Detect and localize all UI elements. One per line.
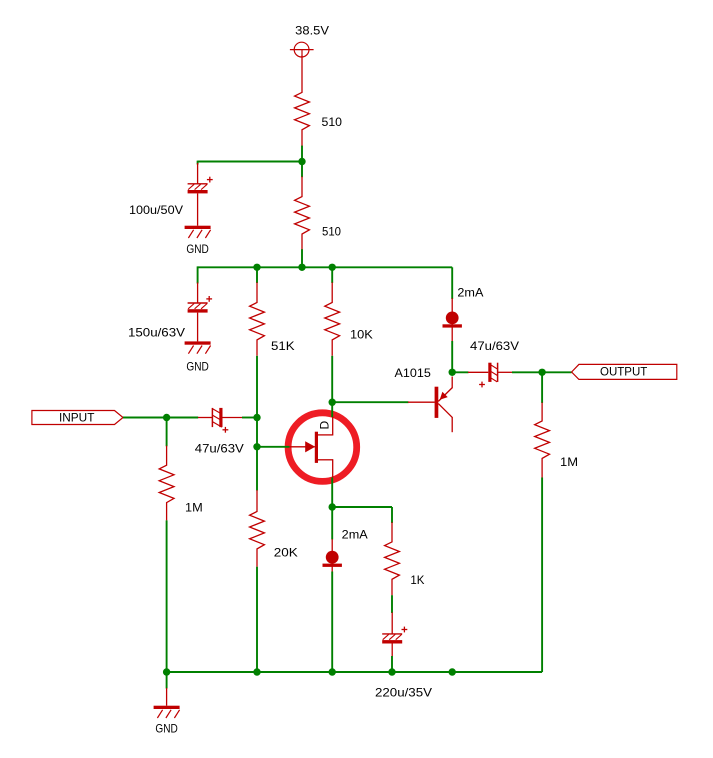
- junction node V2 junction at 510: [298, 264, 305, 271]
- wire wire source node horizontal: [332, 506, 392, 508]
- wire wire rail to 51K: [256, 267, 258, 283]
- resistor 10K: [325, 282, 340, 355]
- wire cap 150u lead-in: [197, 266, 199, 283]
- transistor Q2 A1015 PNP: [408, 377, 452, 433]
- svg-text:GND: GND: [186, 360, 209, 374]
- svg-text:100u/50V: 100u/50V: [129, 203, 183, 217]
- junction junction rail at input column: [163, 668, 170, 675]
- capacitor 220u/35V: [382, 612, 407, 656]
- svg-text:1M: 1M: [560, 455, 578, 469]
- wire wire 1M output to rail: [541, 478, 543, 673]
- junction junction source node: [329, 503, 336, 510]
- svg-text:2mA: 2mA: [342, 528, 368, 542]
- wire node V1 horizontal: [198, 161, 302, 163]
- svg-text:GND: GND: [155, 722, 178, 736]
- wire wire corner down to 1K: [391, 507, 393, 523]
- wire wire rail to ground: [166, 672, 168, 689]
- svg-text:150u/63V: 150u/63V: [128, 326, 185, 340]
- junction junction rail at collector: [449, 668, 456, 675]
- svg-text:510: 510: [322, 115, 343, 129]
- wire wire input node to 1M: [166, 418, 168, 447]
- svg-text:10K: 10K: [350, 328, 373, 342]
- wire wire drain node to JFET: [331, 402, 333, 417]
- wire wire source node to CRD: [331, 507, 333, 540]
- capacitor 47u/63V input: [198, 408, 242, 433]
- wire wire output node to 1M: [541, 372, 543, 403]
- wire wire drain node to base: [332, 401, 408, 403]
- wire wire input node to 20K: [256, 418, 258, 490]
- junction junction rail at 220u: [388, 668, 395, 675]
- JFET Q1 2SK-type: [289, 417, 333, 478]
- wire wire 20K to rail: [256, 567, 258, 672]
- net flag INPUT: [32, 411, 123, 425]
- svg-text:D: D: [318, 421, 332, 430]
- svg-text:INPUT: INPUT: [59, 411, 95, 425]
- resistor 510 (lower): [295, 177, 310, 251]
- svg-text:220u/35V: 220u/35V: [375, 686, 432, 700]
- ground GND (100u cap): [185, 226, 211, 256]
- resistor 51K: [250, 282, 265, 355]
- current regulating diode 2mA (lower): [323, 551, 342, 567]
- junction junction output node: [538, 369, 545, 376]
- junction junction rail at CRD: [329, 668, 336, 675]
- svg-text:1M: 1M: [185, 500, 203, 514]
- resistor 510 (upper): [295, 56, 310, 147]
- capacitor 47u/63V output: [468, 363, 512, 388]
- wire node V2 rail horizontal: [198, 266, 453, 268]
- wire wire gate horizontal: [257, 446, 290, 448]
- svg-text:GND: GND: [186, 242, 209, 256]
- junction junction gate node: [253, 443, 260, 450]
- power symbol 38.5V supply: [290, 42, 314, 57]
- wire wire 10K to drain node: [331, 356, 333, 402]
- svg-text:A1015: A1015: [395, 366, 432, 380]
- junction junction emitter node: [449, 369, 456, 376]
- svg-text:1K: 1K: [410, 573, 424, 587]
- wire wire CRD to rail: [331, 572, 333, 673]
- svg-text:510: 510: [322, 225, 341, 239]
- wire wire JFET source down: [331, 478, 333, 508]
- wire wire 51K to input node: [256, 356, 258, 418]
- wire wire cap to output node: [512, 371, 572, 373]
- current regulating diode 2mA (upper): [443, 312, 462, 328]
- wire ground rail horizontal: [167, 671, 542, 673]
- wire wire CRD to emitter node: [451, 341, 453, 372]
- wire wire rail to 10K: [331, 267, 333, 283]
- resistor 1M (input): [159, 446, 174, 521]
- wire wire 1M input to rail: [166, 520, 168, 672]
- wire wire 510 lower to rail: [301, 249, 303, 267]
- svg-text:47u/63V: 47u/63V: [195, 441, 244, 455]
- resistor 1K: [385, 522, 400, 595]
- resistor 1M (output): [535, 403, 550, 478]
- capacitor 150u/63V: [188, 283, 213, 342]
- wire node V1 vertical stub: [301, 146, 303, 178]
- svg-text:51K: 51K: [271, 339, 295, 353]
- svg-text:OUTPUT: OUTPUT: [600, 365, 648, 379]
- svg-text:47u/63V: 47u/63V: [470, 339, 519, 353]
- lead CRD top: [451, 298, 453, 341]
- svg-text:2mA: 2mA: [457, 286, 483, 300]
- ground GND (150u cap): [185, 341, 211, 373]
- junction node V2 junction at 51K: [253, 264, 260, 271]
- lead ground stub: [166, 688, 168, 706]
- svg-text:38.5V: 38.5V: [295, 23, 329, 37]
- junction junction rail at 20K: [253, 668, 260, 675]
- lead CRD bottom: [331, 539, 333, 571]
- junction node V1: [298, 158, 305, 165]
- wire cap 100u lead-in corner: [197, 161, 199, 165]
- wire wire cap 220u to rail: [391, 656, 393, 672]
- resistor 20K: [250, 490, 265, 567]
- wire wire input flag to cap: [123, 417, 198, 419]
- junction junction drain node: [329, 399, 336, 406]
- junction node V2 junction at 10K: [329, 264, 336, 271]
- wire wire 1K to cap 220u: [391, 595, 393, 613]
- net flag OUTPUT: [572, 364, 677, 379]
- wire wire rail right corner down: [451, 267, 453, 299]
- ground GND (main): [154, 706, 180, 736]
- svg-text:20K: 20K: [274, 545, 298, 559]
- wire wire cap to gate column: [242, 417, 258, 419]
- junction junction gate bias node: [253, 414, 260, 421]
- junction junction input node: [163, 414, 170, 421]
- highlight circle around JFET: [288, 413, 357, 482]
- wire wire emitter node to cap: [452, 371, 468, 373]
- capacitor 100u/50V: [188, 163, 213, 226]
